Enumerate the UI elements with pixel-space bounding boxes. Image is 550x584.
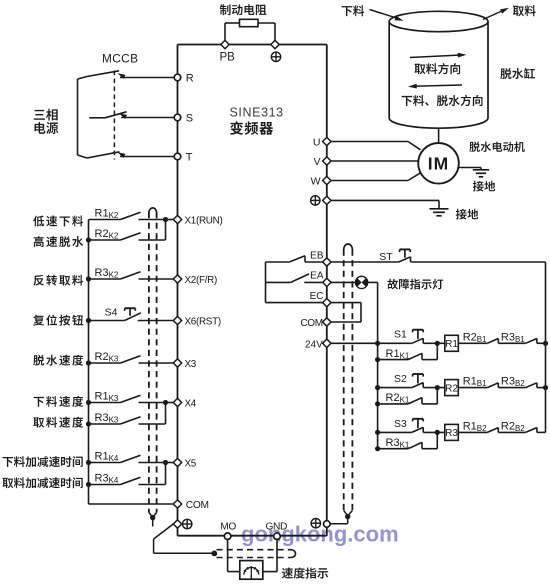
wire EB to ST	[331, 261, 399, 263]
pushbutton S2	[378, 387, 412, 389]
relay contact R2B2	[526, 428, 537, 433]
wire T	[120, 156, 174, 158]
arrow 下料 into drum	[370, 10, 399, 19]
pair junction wire	[165, 403, 167, 425]
supply bracket	[77, 79, 79, 155]
terminal V	[323, 157, 331, 165]
svg-text:IM: IM	[428, 154, 449, 174]
label 脱水速度	[33, 355, 44, 366]
braking resistor body	[240, 19, 259, 26]
label 速度指示	[282, 567, 293, 578]
pushbutton S1	[378, 342, 412, 344]
svg-text:T: T	[186, 152, 193, 164]
shielded cable (left)	[149, 208, 157, 212]
terminal X3	[173, 359, 181, 367]
label 脱水缸	[500, 68, 511, 79]
svg-text:24V: 24V	[305, 339, 323, 350]
svg-text:S1: S1	[394, 329, 407, 341]
svg-text:X2(F/R): X2(F/R)	[185, 275, 217, 286]
svg-text:SINE313: SINE313	[230, 106, 284, 120]
speed meter	[240, 561, 263, 580]
label 制动电阻	[220, 4, 231, 15]
arrow 取料方向 (right)	[410, 55, 461, 58]
fault indicator lamp 故障指示灯	[356, 276, 368, 288]
wire COM row	[89, 503, 174, 505]
svg-text:X3: X3	[185, 359, 197, 370]
label 下料、脱水方向	[402, 96, 413, 106]
svg-text:EA: EA	[310, 271, 324, 282]
cable shield dot (right)	[345, 514, 350, 519]
label 低速下料	[33, 216, 44, 227]
terminal X4	[173, 398, 181, 406]
pair junction wire	[165, 220, 167, 241]
label 反转取料	[33, 275, 44, 286]
wire 24V to bus	[331, 342, 378, 344]
svg-text:GND: GND	[266, 521, 287, 532]
arrow 下料、脱水方向 (left)	[413, 85, 462, 86]
svg-text:U: U	[313, 137, 321, 149]
wire earth terminal to ground	[331, 199, 439, 201]
wire W	[331, 180, 408, 182]
relay contact EA	[266, 281, 291, 283]
label 脱水电动机	[469, 141, 480, 152]
label 变频器	[230, 121, 243, 134]
svg-text:S2: S2	[394, 373, 407, 385]
wire drum to motor	[438, 128, 440, 144]
relay contact EB	[266, 261, 290, 263]
right return bus	[545, 262, 547, 432]
meter shielded cable (capsule)	[217, 549, 292, 551]
relay contact R2K1	[378, 403, 409, 405]
wire earth to meter cable	[154, 524, 174, 539]
relay contact R1K2	[89, 219, 121, 221]
EC-COM loop	[331, 302, 361, 304]
label 故障指示灯	[387, 279, 398, 290]
terminal X5	[173, 458, 181, 466]
pushbutton S4	[89, 320, 125, 322]
relay contact R3K1	[378, 448, 409, 450]
svg-text:X1(RUN): X1(RUN)	[185, 216, 223, 227]
terminal X6(RST)	[173, 316, 181, 324]
relay contact R3B1	[526, 339, 537, 344]
label 高速脱水	[34, 236, 44, 247]
svg-text:R: R	[186, 73, 194, 85]
svg-text:COM: COM	[300, 318, 322, 329]
terminal EC	[323, 298, 331, 306]
motor IM	[418, 143, 459, 184]
relay contact R1B1	[487, 383, 498, 388]
left control bus	[88, 220, 90, 505]
wire GND down to meter	[276, 540, 278, 572]
terminal earth (plus)	[323, 196, 331, 204]
relay contact R1K1	[378, 359, 409, 361]
relay coil R2	[445, 380, 459, 396]
terminal earth (right bottom)	[324, 521, 331, 528]
svg-text:ST: ST	[379, 251, 393, 263]
label 接地 (inverter)	[456, 209, 467, 220]
wire coil to contacts	[458, 431, 487, 433]
svg-text:PB: PB	[220, 51, 236, 63]
ground (motor)	[480, 168, 482, 170]
svg-text:R3: R3	[445, 428, 458, 439]
terminal PB	[221, 40, 229, 48]
MCCB blade S	[89, 117, 105, 119]
terminal COM (right)	[323, 318, 331, 326]
relay contact R1K3	[89, 402, 121, 404]
svg-text:V: V	[313, 156, 320, 168]
svg-text:EC: EC	[310, 291, 324, 302]
terminal T	[174, 153, 181, 160]
pushbutton S3	[378, 431, 412, 433]
fault contact bus (left)	[265, 262, 267, 303]
label 取料方向	[414, 64, 425, 75]
pair junction wire	[165, 463, 167, 485]
relay coil R3	[445, 424, 459, 440]
svg-text:S3: S3	[394, 418, 407, 430]
label 下料加减速时间	[3, 457, 13, 467]
relay contact R3K4	[89, 484, 121, 486]
arrow 取料 out of drum	[483, 10, 504, 20]
wire EC	[266, 302, 323, 304]
inverter left bus	[177, 45, 179, 536]
wire motor to ground	[458, 167, 481, 169]
relay contact R2K3	[89, 362, 121, 364]
inverter SINE313 frame top bus	[178, 44, 327, 46]
label 三相电源	[34, 110, 45, 120]
wire V	[331, 160, 419, 162]
label 下料速度	[33, 397, 43, 407]
svg-text:EB: EB	[310, 250, 324, 261]
shielded cable (right)	[344, 244, 353, 249]
wire resistor to plus terminal	[258, 22, 275, 24]
label 复位按钮	[33, 315, 44, 326]
label 接地 (motor)	[473, 181, 484, 192]
svg-text:X6(RST): X6(RST)	[185, 317, 221, 328]
svg-text:S4: S4	[105, 307, 118, 319]
pushbutton ST	[399, 257, 411, 262]
relay contact R1B2	[487, 428, 498, 433]
ground (inverter)	[430, 208, 449, 210]
terminal R	[174, 74, 181, 81]
relay contact R2K2	[89, 239, 121, 241]
terminal COM (left)	[173, 500, 181, 508]
svg-text:R2: R2	[445, 383, 458, 394]
wire R	[120, 77, 174, 79]
wire coil to contacts	[458, 342, 487, 344]
wire shield to earth terminal	[331, 523, 348, 525]
terminal earth (left bottom)	[173, 520, 181, 528]
svg-text:W: W	[311, 176, 321, 188]
terminal 24V	[323, 339, 331, 347]
terminal W	[323, 176, 331, 184]
MCCB blade R	[87, 71, 119, 77]
relay contact R3K3	[89, 423, 121, 425]
wire S	[121, 117, 174, 119]
wire U	[331, 141, 408, 143]
terminal X2(F/R)	[173, 275, 181, 283]
MCCB blade T	[87, 152, 120, 158]
wire lamp to rung bus	[368, 281, 378, 283]
relay contact R3K2	[89, 278, 121, 280]
drum 脱水缸 body	[389, 22, 488, 129]
label 取料 (top)	[513, 6, 524, 17]
plus symbol top	[271, 52, 280, 61]
svg-text:MO: MO	[220, 521, 236, 532]
inverter bottom bus	[178, 535, 327, 537]
terminal MO	[224, 533, 231, 540]
rung feed bus	[377, 282, 379, 448]
svg-text:S: S	[186, 113, 193, 125]
svg-text:X5: X5	[185, 459, 197, 470]
relay contact R2B1	[487, 339, 498, 344]
wire EA to fault lamp	[331, 281, 356, 283]
relay contact R3B2	[526, 383, 537, 388]
terminal GND	[274, 533, 281, 540]
svg-text:COM: COM	[186, 500, 209, 511]
wire coil to contacts	[458, 387, 487, 389]
terminal plus (top)	[271, 40, 279, 48]
terminal S	[174, 114, 181, 121]
label 取料加减速时间	[2, 478, 13, 488]
svg-text:MCCB: MCCB	[102, 52, 138, 66]
relay coil R1	[445, 335, 459, 351]
terminal U	[323, 137, 331, 145]
terminal X1(RUN)	[173, 215, 181, 223]
svg-text:X4: X4	[185, 399, 197, 410]
svg-text:R1: R1	[445, 339, 458, 350]
terminal EB	[323, 258, 331, 266]
wire PB to resistor	[224, 23, 226, 41]
relay contact R1K4	[89, 462, 121, 464]
meter cable shield dot	[211, 551, 217, 557]
wire MO down to meter	[227, 540, 229, 572]
inverter right bus	[326, 45, 328, 536]
label 取料速度	[33, 417, 44, 427]
cable shield dot	[150, 515, 155, 520]
MCCB mechanical link (dashed)	[113, 71, 115, 160]
label 下料 (top)	[342, 6, 353, 16]
terminal EA	[323, 278, 331, 286]
